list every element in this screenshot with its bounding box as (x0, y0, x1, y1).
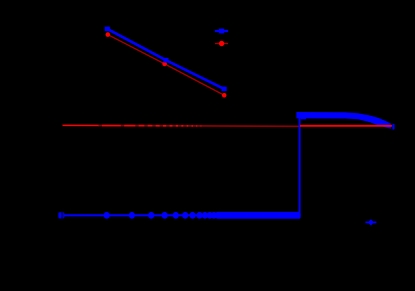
inset blue square markers (105, 27, 110, 32)
blue merged marker bar (216, 212, 301, 219)
blue bottom line (61, 214, 301, 216)
blue vertical jump line (299, 113, 301, 216)
legend red entry (215, 43, 228, 45)
legend blue diamond entry (365, 221, 376, 223)
blue detached small marker after jump (301, 117, 306, 119)
inset red line (108, 35, 224, 96)
legend blue entry (215, 30, 228, 32)
navy stripe on first marker (61, 212, 63, 219)
red bright marker gaps (102, 125, 201, 127)
blue first marker blob (58, 212, 64, 218)
inset blue line (107, 29, 224, 89)
blue top band (after jump) (296, 112, 391, 129)
red solid bright segment left (63, 124, 99, 126)
red dark base line under dashes (98, 125, 300, 128)
inset red circle markers (106, 32, 111, 37)
blue end vline marker (392, 124, 394, 130)
blue round markers (104, 212, 110, 219)
